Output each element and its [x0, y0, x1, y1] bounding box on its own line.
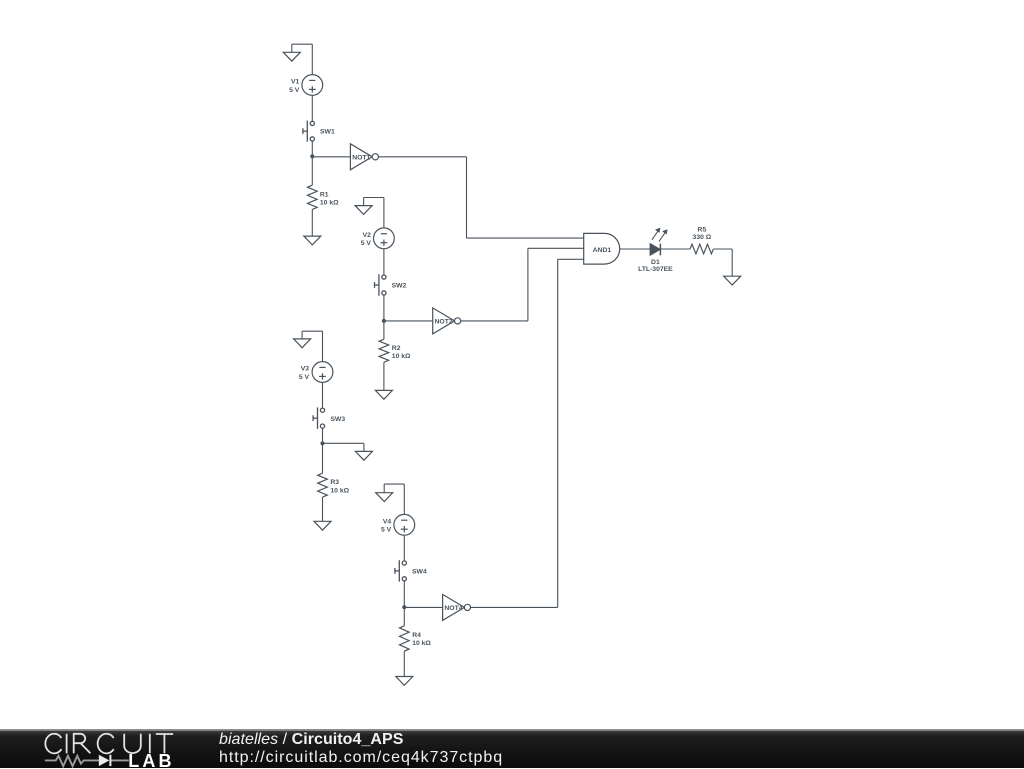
- wire node A to NOT1: [312, 156, 350, 158]
- wire SW4 to node D: [403, 581, 405, 607]
- switch SW4: [395, 560, 407, 581]
- wire NOT4 to AND1 input 3: [471, 606, 558, 608]
- wire ground to V2: [364, 197, 384, 199]
- svg-text:R2: R2: [392, 345, 401, 352]
- svg-text:10 kΩ: 10 kΩ: [330, 487, 349, 494]
- ground at node C: [355, 451, 372, 460]
- wire node C to R3: [322, 443, 324, 473]
- C: [45, 734, 61, 754]
- T: [156, 734, 173, 753]
- switch SW2: [375, 274, 387, 295]
- svg-text:V2: V2: [363, 232, 372, 239]
- wire node C to side ground: [323, 442, 364, 444]
- ground below R2: [375, 390, 392, 399]
- C: [98, 734, 114, 754]
- switch SW1: [303, 121, 315, 142]
- wire R3 to ground: [322, 497, 324, 521]
- voltage source V1: [302, 75, 323, 96]
- svg-text:R5: R5: [698, 227, 707, 234]
- svg-text:R1: R1: [320, 191, 329, 198]
- voltage source V4: [394, 514, 415, 535]
- svg-text:10 kΩ: 10 kΩ: [320, 199, 339, 206]
- svg-text:NOT4: NOT4: [444, 605, 462, 612]
- svg-text:5 V: 5 V: [361, 240, 372, 247]
- wire node D to NOT4: [404, 606, 442, 608]
- inverter NOT2: [433, 308, 455, 334]
- wire NOT1 to AND1 input 1: [378, 156, 466, 158]
- footer title: [219, 731, 403, 749]
- svg-text:LAB: LAB: [128, 751, 174, 769]
- wire D1 to R5: [660, 248, 690, 250]
- wire NOT2 to AND1 input 2: [461, 320, 528, 322]
- wire node A to R1: [311, 156, 313, 185]
- wire ground to V3: [302, 330, 322, 332]
- svg-text:D1: D1: [651, 259, 660, 266]
- resistor R3: [318, 473, 328, 497]
- switch SW3: [313, 407, 325, 429]
- wire R5 to ground: [713, 248, 732, 250]
- ground below R4: [396, 677, 413, 686]
- wire V4 to SW4: [403, 535, 405, 561]
- wire node D to R4: [403, 607, 405, 626]
- wire ground to V4: [384, 483, 404, 485]
- node C junction: [320, 441, 324, 445]
- wire V2 to SW2: [383, 249, 385, 275]
- voltage source V2: [374, 228, 395, 249]
- wire R2 to ground: [383, 362, 385, 390]
- ground below R1: [304, 236, 321, 245]
- resistor R4: [400, 626, 410, 651]
- R: [74, 734, 91, 754]
- wire V1 to SW1: [311, 95, 313, 121]
- resistor R5: [690, 244, 713, 254]
- wire SW2 to node B: [383, 295, 385, 321]
- ground for V1: [283, 52, 300, 61]
- svg-text:SW2: SW2: [392, 283, 407, 290]
- led D1: [650, 244, 660, 256]
- node A junction: [310, 154, 314, 158]
- wire R4 to ground: [403, 651, 405, 676]
- wire node B to R2: [383, 321, 385, 339]
- svg-text:5 V: 5 V: [289, 87, 300, 94]
- svg-text:5 V: 5 V: [381, 527, 392, 534]
- U: [124, 734, 141, 753]
- svg-text:LTL-307EE: LTL-307EE: [638, 266, 673, 273]
- resistor-diode squiggle: [45, 756, 129, 766]
- ground below R3: [314, 521, 331, 530]
- wire R1 to ground: [311, 209, 313, 236]
- ground after R5: [724, 276, 741, 285]
- node B junction: [382, 319, 386, 323]
- svg-text:10 kΩ: 10 kΩ: [392, 353, 411, 360]
- svg-text:R3: R3: [330, 479, 339, 486]
- svg-text:SW3: SW3: [330, 416, 345, 423]
- wire ground to V1: [292, 43, 313, 45]
- svg-text:NOT1: NOT1: [352, 154, 370, 161]
- I: [66, 734, 68, 754]
- svg-text:5 V: 5 V: [299, 374, 310, 381]
- svg-text:SW1: SW1: [320, 129, 335, 136]
- wire SW1 to node A: [311, 141, 313, 156]
- I: [149, 734, 151, 754]
- resistor R1: [308, 185, 318, 209]
- svg-text:R4: R4: [412, 632, 421, 639]
- footer url: [219, 749, 503, 767]
- svg-text:NOT2: NOT2: [435, 319, 453, 326]
- svg-text:330 Ω: 330 Ω: [693, 234, 712, 241]
- wire SW3 to node C: [322, 428, 324, 443]
- ground for V2: [355, 206, 372, 215]
- svg-text:10 kΩ: 10 kΩ: [412, 640, 431, 647]
- svg-text:AND1: AND1: [593, 247, 612, 254]
- svg-text:V3: V3: [301, 366, 310, 373]
- node D junction: [402, 605, 406, 609]
- svg-text:V4: V4: [383, 518, 392, 525]
- and-gate AND1: [584, 233, 620, 264]
- wire V3 to SW3: [322, 382, 324, 408]
- voltage source V3: [312, 362, 333, 383]
- ground for V4: [376, 493, 393, 502]
- wire node B to NOT2: [384, 320, 433, 322]
- CircuitLab logo: [0, 730, 220, 769]
- inverter NOT1: [350, 144, 372, 170]
- svg-text:SW4: SW4: [412, 569, 427, 576]
- svg-text:V1: V1: [291, 79, 300, 86]
- inverter NOT4: [443, 594, 465, 620]
- resistor R2: [379, 339, 389, 362]
- wire AND1 to D1: [620, 248, 650, 250]
- ground for V3: [294, 339, 311, 348]
- footer bar: [0, 729, 1024, 768]
